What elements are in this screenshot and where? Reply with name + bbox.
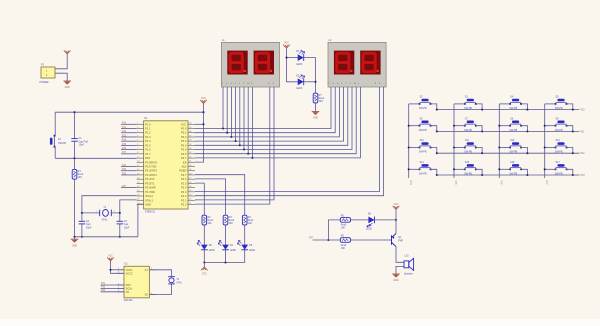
junction S10 right leg row wire [436, 152, 438, 154]
wire S13 left leg [545, 147, 556, 149]
svg-text:S11: S11 [465, 139, 470, 142]
svg-text:P10: P10 [581, 110, 586, 112]
wire C2 bottom leg [81, 224, 83, 237]
wire U2 SCLK net stub [101, 287, 125, 289]
svg-text:S15: S15 [465, 161, 470, 164]
display L1 digit window [254, 51, 274, 75]
wire S10 right leg [431, 148, 437, 154]
svg-text:VCC: VCC [394, 204, 399, 206]
LED D1 [298, 54, 304, 61]
junction VCC D1 [285, 57, 287, 59]
svg-text:S13: S13 [556, 139, 561, 142]
wire S5 right leg [567, 104, 573, 110]
svg-text:SW-PB: SW-PB [464, 172, 472, 175]
net P33 wire [121, 174, 137, 176]
wire S3 left leg [454, 103, 465, 105]
junction ground rail C3 [119, 236, 121, 238]
ground GND below R7 [312, 112, 320, 116]
wire S4 left leg [499, 103, 510, 105]
svg-text:P3.7/RD: P3.7/RD [145, 190, 155, 194]
svg-text:14: 14 [137, 178, 139, 180]
junction S3 right leg row wire [481, 109, 483, 111]
svg-text:P0.4: P0.4 [181, 143, 187, 147]
wire S15 left leg [454, 168, 465, 170]
wire VCC to D1 D2 [287, 48, 298, 82]
svg-text:DS1302: DS1302 [124, 299, 133, 302]
junction reset rail C1 [73, 111, 75, 113]
junction P0.7 display L1 [251, 157, 253, 159]
connector P1 body [41, 67, 55, 78]
pushbutton S7 [464, 121, 477, 127]
svg-text:28: 28 [189, 173, 191, 175]
junction S10 left leg column wire [408, 146, 410, 148]
resistor R7 [313, 93, 318, 103]
pushbutton S3 [464, 99, 477, 105]
wire VCC pin [195, 123, 204, 125]
svg-text:SW-PB: SW-PB [464, 151, 472, 154]
wire P1 pin2 to GND [55, 73, 67, 81]
net P31 wire [121, 166, 137, 168]
pushbutton S17 [555, 164, 568, 170]
wire VCC1 leg [111, 269, 125, 271]
svg-text:19: 19 [137, 199, 139, 201]
svg-text:P17: P17 [122, 152, 127, 154]
pushbutton S15 [464, 164, 477, 170]
wire VCC to VCC1 VCC2 [111, 261, 125, 273]
wire keypad row 3 [437, 152, 580, 154]
svg-text:23: 23 [189, 194, 191, 196]
svg-text:10K: 10K [319, 100, 324, 103]
svg-text:SW-PB: SW-PB [555, 107, 563, 110]
pushbutton S5 [555, 99, 568, 105]
wire keypad row 2 [437, 130, 580, 132]
svg-text:SW-PB: SW-PB [419, 129, 427, 132]
svg-text:X2: X2 [145, 293, 149, 297]
svg-text:SW-PB: SW-PB [509, 151, 517, 154]
wire S14 left leg [409, 168, 420, 170]
wire S12 right leg [521, 148, 527, 154]
svg-text:1: 1 [137, 123, 138, 125]
display L2 pin number strip [329, 83, 382, 85]
svg-text:P33: P33 [122, 173, 127, 175]
wire P2.x to R4 [195, 175, 245, 216]
svg-text:P1.1: P1.1 [145, 127, 151, 131]
wire S3 right leg [476, 104, 482, 110]
svg-text:P2.5: P2.5 [181, 181, 187, 185]
wire chip GND pin down to ground rail [138, 204, 144, 237]
svg-text:VCC: VCC [284, 43, 289, 45]
svg-text:20: 20 [137, 203, 139, 205]
junction S12 right leg row wire [526, 152, 528, 154]
wire U2 I/O net stub [101, 291, 125, 293]
pushbutton S2 [419, 99, 432, 105]
resistor R4 [242, 215, 247, 225]
svg-text:P2.0: P2.0 [181, 203, 187, 207]
junction P0.1 display L1 [226, 132, 228, 134]
svg-text:XTAL1: XTAL1 [145, 198, 153, 202]
svg-text:5: 5 [137, 140, 138, 142]
svg-text:ALE: ALE [181, 165, 186, 169]
junction S8 right leg row wire [526, 130, 528, 132]
display L1 digit window [227, 51, 247, 75]
svg-text:VCC1: VCC1 [126, 268, 133, 272]
wire P0.1 bus to displays [195, 87, 335, 133]
power VCC speaker circuit [393, 206, 400, 210]
wire speaker to GND [396, 266, 404, 274]
wire display L1 segment pin 1 [222, 87, 224, 129]
svg-text:P0.2: P0.2 [181, 135, 187, 139]
svg-text:P14: P14 [409, 181, 411, 186]
wire S12 left leg [499, 147, 510, 149]
wire P0.6 bus to displays [195, 87, 356, 154]
resistor R3 [223, 215, 228, 225]
junction S16 left leg column wire [498, 168, 500, 170]
pushbutton S12 [509, 142, 522, 148]
pushbutton S1 [50, 135, 55, 148]
svg-text:P16: P16 [122, 148, 127, 150]
svg-text:LED0: LED0 [249, 249, 256, 252]
svg-text:17: 17 [137, 190, 139, 192]
chip U2 pin stubs and names [117, 270, 157, 295]
capacitor C3 [117, 221, 123, 224]
wire rail VCC stub [203, 263, 205, 267]
svg-text:AT89C51: AT89C51 [145, 211, 156, 214]
svg-text:S14: S14 [420, 161, 425, 164]
svg-text:P2.6: P2.6 [181, 177, 187, 181]
svg-text:I/O: I/O [126, 290, 129, 294]
svg-text:VCC: VCC [201, 98, 206, 100]
svg-text:38: 38 [189, 131, 191, 133]
svg-text:SW-PB: SW-PB [555, 129, 563, 132]
junction S9 left leg column wire [544, 125, 546, 127]
svg-text:P0.7: P0.7 [181, 156, 187, 160]
microcontroller U1 body [144, 121, 188, 209]
wire P2.x to R2 [195, 183, 204, 215]
wire P0.2 bus to displays [195, 87, 339, 137]
wire keypad row 4 [437, 174, 580, 176]
svg-text:EA: EA [183, 160, 187, 164]
wire display L1 segment pin 3 [230, 87, 232, 137]
svg-text:PSEN: PSEN [179, 169, 186, 173]
wire R5 to D6 [351, 219, 369, 221]
junction S5 right leg row wire [572, 109, 574, 111]
svg-text:VCC: VCC [202, 273, 207, 275]
svg-text:SW-PB: SW-PB [509, 129, 517, 132]
junction S7 left leg column wire [453, 125, 455, 127]
svg-text:P32: P32 [122, 169, 127, 171]
wire C3 top leg [119, 213, 121, 221]
svg-text:10K: 10K [248, 222, 253, 225]
wire D5 to rail [244, 250, 246, 263]
svg-text:18: 18 [137, 194, 139, 196]
wire S17 left leg [545, 168, 556, 170]
svg-text:GND: GND [65, 87, 70, 89]
wire S2 left leg [409, 103, 420, 105]
wire S11 right leg [476, 148, 482, 154]
wire D6 cathode to VCC node [374, 219, 396, 221]
pushbutton S16 [509, 164, 522, 170]
svg-text:P1.6: P1.6 [145, 148, 151, 152]
wire LED common rail [204, 262, 244, 264]
junction S8 left leg column wire [498, 125, 500, 127]
svg-text:SW-PB: SW-PB [419, 151, 427, 154]
svg-text:P2.1: P2.1 [181, 198, 187, 202]
wire D1 anode [287, 57, 298, 59]
wire R6 to Q1 base [351, 239, 392, 241]
svg-text:XTAL2: XTAL2 [145, 194, 153, 198]
wire S16 left leg [499, 168, 510, 170]
wire C2 top leg [81, 213, 83, 221]
svg-text:S17: S17 [556, 161, 561, 164]
svg-text:LS1: LS1 [405, 255, 410, 258]
LED D3 [201, 245, 208, 250]
svg-text:S16: S16 [510, 161, 515, 164]
LED D4 [222, 245, 229, 250]
svg-text:SW-PB: SW-PB [464, 129, 472, 132]
net P32 wire [121, 170, 137, 172]
wire keypad column 1 [408, 104, 410, 178]
junction S11 left leg column wire [453, 146, 455, 148]
svg-text:GND: GND [313, 118, 318, 120]
svg-text:P0.6: P0.6 [181, 152, 187, 156]
svg-text:36: 36 [189, 140, 191, 142]
svg-text:27: 27 [189, 178, 191, 180]
svg-text:GND: GND [145, 203, 151, 207]
wire GND stub [74, 237, 76, 239]
svg-text:P31: P31 [101, 283, 106, 285]
svg-text:30: 30 [189, 165, 191, 167]
svg-text:P1.4: P1.4 [145, 139, 151, 143]
power VCC below LED rail [201, 267, 208, 271]
wire XTAL2 to crystal [82, 196, 137, 213]
7-segment display L1 body [221, 42, 279, 87]
svg-text:10K: 10K [341, 247, 346, 250]
wire P2.x to R3 [195, 179, 226, 215]
ground GND top-left [63, 81, 71, 85]
power VCC above D1 [283, 45, 290, 49]
svg-text:SW-PB: SW-PB [419, 107, 427, 110]
wire P0.0 bus to displays [195, 87, 331, 129]
junction S17 left leg column wire [544, 168, 546, 170]
svg-text:VCC: VCC [108, 255, 113, 257]
svg-text:LED0: LED0 [366, 228, 373, 231]
svg-text:10: 10 [137, 161, 139, 163]
wire R2 to D3 [203, 225, 205, 245]
wire S6 left leg [409, 125, 420, 127]
svg-text:PNP: PNP [398, 240, 403, 243]
svg-text:P2.4: P2.4 [181, 186, 187, 190]
svg-text:2: 2 [137, 127, 138, 129]
svg-text:37: 37 [189, 135, 191, 137]
wire display L1 segment pin 7 [247, 87, 249, 154]
svg-text:P12: P12 [581, 153, 586, 155]
junction P0.4 display L1 [239, 144, 241, 146]
pushbutton S9 [555, 121, 568, 127]
svg-text:P3.5/T1: P3.5/T1 [145, 181, 155, 185]
svg-text:13: 13 [137, 173, 139, 175]
wire S7 right leg [476, 126, 482, 132]
svg-text:GND: GND [72, 245, 77, 247]
7-segment display L2 body [328, 42, 386, 87]
wire P2.3 to display L2 common 1 [195, 87, 380, 192]
svg-text:P0.3: P0.3 [181, 139, 187, 143]
wire VCC to Q1 emitter [395, 210, 397, 234]
svg-text:24: 24 [189, 190, 191, 192]
svg-text:34: 34 [189, 148, 191, 150]
wire S9 right leg [567, 126, 573, 132]
LED D6 [368, 217, 374, 224]
svg-text:P2.2: P2.2 [181, 194, 187, 198]
junction rail R3 branch [224, 261, 226, 263]
wire P2.1 to display L1 common 2 [195, 87, 274, 200]
svg-text:Speaker: Speaker [404, 273, 413, 276]
svg-text:LED0: LED0 [296, 87, 303, 90]
wire U2 X1 to crystal Y2 [149, 270, 171, 277]
junction S6 left leg column wire [408, 125, 410, 127]
junction S6 right leg row wire [436, 130, 438, 132]
svg-text:26: 26 [189, 182, 191, 184]
svg-text:7: 7 [137, 148, 138, 150]
svg-text:P0.1: P0.1 [181, 131, 187, 135]
svg-text:35: 35 [189, 144, 191, 146]
wire S17 right leg [567, 169, 573, 175]
junction S15 right leg row wire [481, 174, 483, 176]
svg-text:POWER: POWER [40, 81, 49, 84]
wire VCC rail reset top [55, 111, 203, 113]
svg-text:SW-PB: SW-PB [509, 107, 517, 110]
LED D5 [241, 245, 248, 250]
display L2 digit window [334, 51, 354, 75]
wire display L1 segment pin 4 [235, 87, 237, 141]
resistor R6 [340, 238, 350, 243]
wire R1 top leg [74, 158, 76, 169]
svg-text:P3.1/TXD: P3.1/TXD [145, 165, 156, 169]
capacitor C2 [79, 221, 85, 224]
wire reset button left leg [54, 112, 56, 136]
svg-text:LED0: LED0 [296, 63, 303, 66]
svg-text:P2.7: P2.7 [181, 173, 187, 177]
capacitor C1 [71, 139, 77, 142]
LED D2 [298, 78, 304, 85]
wire display L1 segment pin 6 [243, 87, 245, 150]
junction VCC reset rail [202, 111, 204, 113]
svg-text:X1: X1 [145, 268, 149, 272]
wire U2 X2 to crystal Y2 [149, 284, 171, 295]
wire D4 to rail [225, 250, 227, 263]
pushbutton S11 [464, 142, 477, 148]
svg-text:SCLK: SCLK [126, 286, 133, 290]
svg-text:33: 33 [189, 152, 191, 154]
display L2 digit 8 [363, 53, 375, 71]
svg-text:32: 32 [189, 157, 191, 159]
junction D6 VCC emitter node [395, 219, 397, 221]
svg-text:LED0: LED0 [230, 249, 237, 252]
svg-text:SW-PB: SW-PB [509, 172, 517, 175]
svg-text:8: 8 [137, 152, 138, 154]
pushbutton S8 [509, 121, 522, 127]
wire R7 to GND [315, 103, 317, 112]
net label P10-P17 wires on U1 [121, 123, 137, 125]
svg-text:P3.2/INT0: P3.2/INT0 [145, 169, 157, 173]
svg-text:P1.3: P1.3 [145, 135, 151, 139]
wire keypad column 4 [544, 104, 546, 178]
pushbutton S13 [555, 142, 568, 148]
resistor R2 [202, 215, 207, 225]
svg-text:P3.4/T0: P3.4/T0 [145, 177, 155, 181]
svg-text:SW-PB: SW-PB [555, 172, 563, 175]
svg-text:25: 25 [189, 186, 191, 188]
svg-text:P13: P13 [122, 135, 127, 137]
display L2 digit window [360, 51, 380, 75]
junction P0.6 display L1 [247, 153, 249, 155]
wire P2.0 to display L1 common 1 [195, 87, 270, 204]
junction S17 right leg row wire [572, 174, 574, 176]
wire crystal ground rail [75, 236, 138, 238]
junction VCC1 [109, 269, 111, 271]
wire S8 right leg [521, 126, 527, 132]
junction crystal right C3 [119, 212, 121, 214]
svg-text:P2.3: P2.3 [181, 190, 187, 194]
svg-text:RST: RST [126, 283, 132, 287]
junction ground rail C2 [81, 236, 83, 238]
svg-text:P17: P17 [545, 181, 547, 186]
wire RST rail to chip [55, 157, 136, 159]
wire R1 bottom leg to ground rail [74, 179, 76, 237]
svg-text:RST: RST [145, 156, 151, 160]
svg-text:SW-PB: SW-PB [555, 151, 563, 154]
svg-text:P14: P14 [122, 140, 127, 142]
junction P0.0 display L1 [222, 127, 224, 129]
resistor R1 [72, 169, 77, 179]
svg-text:21: 21 [189, 203, 191, 205]
display L2 digit 8 [337, 53, 349, 71]
wire P1 pin1 to VCC [55, 54, 67, 69]
svg-text:12: 12 [137, 169, 139, 171]
svg-text:10K: 10K [78, 176, 83, 179]
svg-text:9: 9 [137, 157, 138, 159]
wire S14 right leg [431, 169, 437, 175]
wire display L1 segment pin 2 [226, 87, 228, 133]
svg-text:SW-PB: SW-PB [464, 107, 472, 110]
junction P0.2 display L1 [230, 136, 232, 138]
power VCC above U1 [200, 100, 207, 104]
svg-text:11: 11 [137, 165, 139, 167]
power VCC above U2 [107, 257, 114, 261]
svg-text:P0.0: P0.0 [181, 127, 187, 131]
svg-text:P1.0: P1.0 [145, 122, 151, 126]
svg-text:P10: P10 [122, 123, 127, 125]
wire P37 node [313, 239, 341, 241]
junction P0.3 display L1 [235, 140, 237, 142]
svg-text:16: 16 [137, 186, 139, 188]
crystal Y1 [100, 210, 112, 217]
wire cap C1 bottom leg [74, 141, 76, 158]
svg-text:P13: P13 [581, 175, 586, 177]
wire S8 left leg [499, 125, 510, 127]
svg-text:39: 39 [189, 127, 191, 129]
svg-text:30pF: 30pF [124, 226, 130, 229]
wire keypad column 3 [498, 104, 500, 178]
wire P0.7 bus to displays [195, 87, 360, 158]
svg-text:40: 40 [189, 123, 191, 125]
junction ground rail GND stub [73, 236, 75, 238]
junction S14 left leg column wire [408, 168, 410, 170]
junction D2 cathode [314, 81, 316, 83]
wire S9 left leg [545, 125, 556, 127]
resistor R5 [340, 218, 350, 223]
wire S13 right leg [567, 148, 573, 154]
svg-text:VCC: VCC [181, 122, 187, 126]
